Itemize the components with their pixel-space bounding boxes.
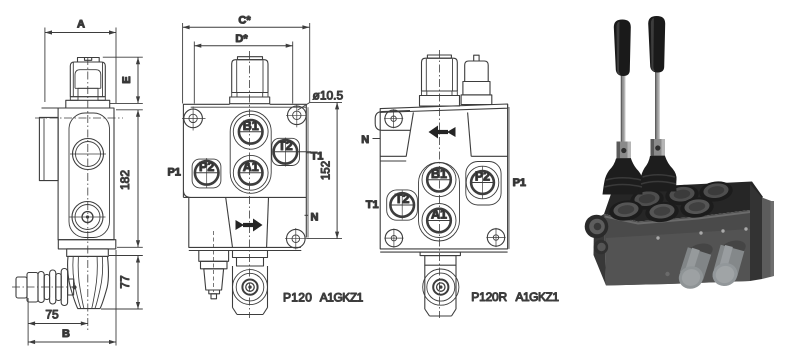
port T2 boss (272, 138, 300, 165)
svg-text:P120: P120 (283, 291, 312, 305)
front cylinder left (692, 251, 700, 276)
spool end in cap (78, 88, 98, 96)
dimension 182 (body height) (116, 110, 143, 248)
port B1 (422, 163, 456, 197)
lever shaft left (621, 74, 626, 146)
right bracket plate (762, 198, 774, 280)
port A1 (422, 204, 456, 238)
front cylinder right (726, 248, 733, 273)
cap top lid (427, 55, 451, 58)
boot ridges (605, 178, 643, 187)
cap body (422, 58, 458, 91)
svg-text:A: A (77, 19, 85, 31)
svg-text:T2: T2 (395, 192, 410, 206)
front cylinder left flange (686, 241, 715, 262)
lever grip right (648, 16, 665, 73)
relief valve on top (461, 55, 492, 104)
centerline horizontal (upper) (35, 117, 123, 119)
dimension B (overall depth) (28, 250, 116, 346)
dimension E (cap height) (103, 57, 143, 103)
lever grip left (614, 20, 631, 77)
spool bore neck slants (226, 197, 233, 247)
top plugs back row (629, 180, 734, 212)
port P2 (466, 166, 499, 199)
port P2 boss (466, 162, 501, 206)
bolt hole top-left (182, 107, 206, 131)
lever joint connector (68, 279, 74, 295)
svg-text:E: E (121, 76, 133, 83)
svg-text:A1GKZ1: A1GKZ1 (516, 290, 560, 304)
left end of body (594, 214, 607, 286)
svg-text:B: B (62, 328, 70, 340)
svg-text:T2: T2 (278, 139, 293, 153)
rubber boot bell (68, 256, 109, 308)
dimension 75 (lever offset) (28, 298, 88, 346)
port T2 (274, 138, 311, 167)
svg-text:ø10.5: ø10.5 (313, 89, 344, 103)
svg-text:T1: T1 (311, 151, 324, 163)
base step (67, 249, 109, 257)
bolt head dots (656, 236, 659, 239)
valve body main block (58, 108, 114, 240)
svg-text:N: N (361, 134, 369, 146)
svg-text:77: 77 (118, 275, 132, 289)
label T1 with tick (306, 152, 311, 154)
svg-text:N: N (311, 211, 319, 223)
body top face (604, 182, 763, 222)
dimension A (width) (45, 19, 116, 104)
dimension 152 (306, 102, 342, 238)
raised face blob around B1/A1 (230, 111, 271, 193)
mounting tab with bolt hole (375, 111, 410, 131)
bottom work port circle (72, 202, 103, 233)
dimension D* (194, 33, 292, 104)
cap body (232, 60, 268, 93)
port T2 boss (387, 190, 418, 220)
svg-text:B1: B1 (243, 119, 259, 133)
port P2 (195, 158, 219, 188)
centerline vertical spool axis (438, 50, 440, 318)
raised face blob around B1/A1 (419, 162, 460, 241)
spring cap top lid (78, 58, 100, 63)
centerline vertical (spool axis) (87, 57, 89, 331)
body front face (604, 210, 750, 286)
port P2 boss (192, 159, 221, 188)
boot left (603, 159, 643, 195)
svg-text:D*: D* (235, 33, 248, 45)
body outline (380, 104, 507, 249)
svg-text:P120R: P120R (471, 290, 507, 304)
spring cap body (70, 62, 105, 97)
bolt hole bottom-left (384, 229, 403, 248)
port B1 (233, 114, 268, 149)
cap base plate (230, 97, 270, 104)
svg-text:P2: P2 (199, 160, 214, 174)
body front face lighter lower part (606, 229, 750, 286)
svg-text:A1GKZ1: A1GKZ1 (320, 291, 364, 305)
centerline vertical spool axis (249, 51, 251, 318)
lever bellows rings (38, 272, 44, 303)
flow direction arrow symbol (left) (429, 126, 456, 139)
label dia 10.5 with leader (298, 102, 310, 110)
flow direction arrow symbol (236, 219, 263, 232)
front face ridge highlight (605, 211, 750, 225)
svg-text:152: 152 (321, 161, 333, 180)
lever shaft right (655, 70, 660, 143)
top work port circle (73, 139, 104, 170)
bolt hole bottom-right (285, 228, 306, 250)
svg-text:A1: A1 (431, 208, 447, 222)
bottom port boss P (233, 251, 268, 315)
cap top lid (238, 57, 263, 60)
dimension C* (183, 15, 310, 104)
svg-text:75: 75 (45, 308, 59, 322)
top mounting strip (380, 104, 507, 112)
label N tick (373, 138, 381, 140)
raised face rounded rectangle (69, 113, 110, 238)
svg-text:182: 182 (118, 170, 132, 190)
front cylinder right flange (719, 238, 748, 259)
relief valve under body (199, 231, 229, 299)
svg-text:C*: C* (238, 15, 251, 27)
cap bottom tabs (232, 93, 237, 98)
side cover plate (39, 117, 58, 180)
top plugs front row (608, 196, 715, 224)
svg-text:P1: P1 (167, 166, 180, 178)
clamp right (651, 139, 666, 161)
svg-text:B1: B1 (431, 167, 447, 181)
right side dark edge (750, 184, 762, 281)
label N with tick (305, 214, 309, 216)
bolt hole top-right (286, 105, 306, 128)
cap bottom tabs (422, 91, 427, 96)
base flange (58, 240, 116, 249)
bottom port boss (420, 252, 460, 316)
spool bore neck slants (406, 112, 413, 156)
dimension 77 (lower housing height) (101, 256, 143, 310)
cap base plate (420, 96, 460, 107)
body outline (183, 104, 306, 247)
boot right (639, 156, 677, 192)
left lower boss (594, 240, 608, 254)
cap bottom flange (70, 96, 105, 98)
svg-text:P2: P2 (475, 170, 490, 184)
centerline horizontal (lever axis) (12, 286, 76, 288)
bolt hole bottom-right (486, 228, 505, 247)
svg-text:A1: A1 (243, 160, 259, 174)
clamp left (617, 142, 632, 164)
cap base plate (66, 100, 110, 108)
svg-text:T1: T1 (366, 199, 379, 211)
left inlet boss (585, 215, 609, 239)
spring cap inner dome (75, 70, 101, 89)
svg-text:P1: P1 (513, 177, 526, 189)
lever handle socket (16, 277, 27, 298)
port A1 (233, 155, 268, 190)
port T2 (390, 191, 414, 220)
